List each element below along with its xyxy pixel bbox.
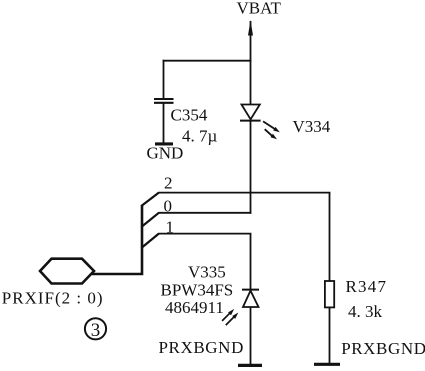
wire bit 2 down to resistor (329, 193, 331, 282)
svg-text:4864911: 4864911 (165, 298, 224, 317)
bus line (92, 205, 142, 274)
resistor R347 (325, 281, 334, 307)
svg-text:C354: C354 (171, 105, 208, 124)
svg-text:2: 2 (164, 173, 173, 192)
LED V334 (240, 105, 280, 140)
svg-text:V334: V334 (293, 117, 331, 136)
svg-text:3: 3 (91, 320, 101, 341)
wire bit 1 horizontal (158, 233, 251, 235)
svg-text:PRXBGND: PRXBGND (159, 338, 244, 357)
bus entry bit 0 (141, 213, 159, 227)
wire LED cathode down (250, 121, 252, 214)
svg-text:BPW34FS: BPW34FS (161, 281, 234, 300)
svg-text:PRXIF(2 : 0): PRXIF(2 : 0) (2, 289, 104, 308)
svg-text:0: 0 (164, 196, 173, 215)
ground bar left PRXBGND (238, 364, 262, 367)
svg-text:1: 1 (166, 218, 175, 237)
wire bit 0 horizontal (158, 212, 251, 214)
page reference circled 3 (85, 318, 106, 341)
power arrow VBAT (248, 20, 253, 36)
svg-text:GND: GND (147, 143, 184, 162)
capacitor C354 (154, 60, 174, 143)
bus entry bit 2 (141, 193, 159, 206)
wire photodiode anode down (250, 307, 252, 366)
wire capacitor feed (163, 60, 252, 62)
connector hexagon PRXIF (40, 259, 94, 284)
wire resistor down to ground (329, 307, 331, 364)
svg-text:4. 3k: 4. 3k (348, 302, 383, 321)
ground bar right PRXBGND (314, 363, 340, 366)
ground GND symbol (155, 142, 173, 145)
svg-text:VBAT: VBAT (237, 0, 282, 18)
svg-text:4. 7µ: 4. 7µ (182, 126, 218, 145)
wire bit 2 horizontal (158, 192, 330, 194)
svg-text:R347: R347 (346, 277, 388, 296)
wire VBAT vertical (250, 21, 252, 105)
svg-text:V335: V335 (188, 263, 226, 282)
bus entry bit 1 (141, 234, 159, 248)
photodiode V335 (222, 290, 259, 326)
wire bit 1 down to photodiode (250, 234, 252, 290)
svg-text:PRXBGND: PRXBGND (341, 339, 425, 358)
